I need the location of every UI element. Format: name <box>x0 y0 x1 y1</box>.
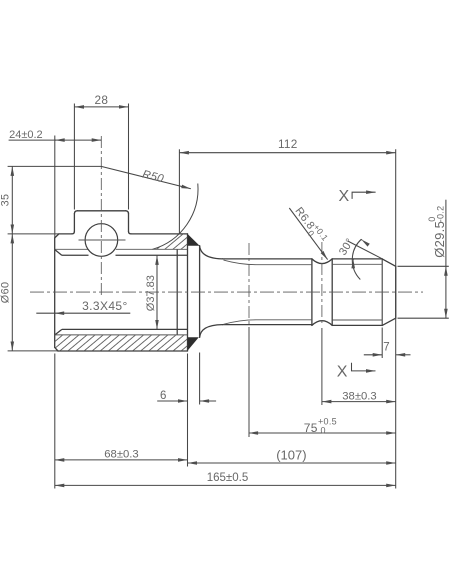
tip end extension line (112/165/7/38/75/107) <box>395 149 397 488</box>
svg-text:-0.2: -0.2 <box>436 206 446 223</box>
thread minor dia top right section <box>332 263 382 265</box>
groove neck arc top R6.8 <box>312 259 332 264</box>
flange bottom-left corner chamfer <box>55 347 58 351</box>
relief groove filled triangle bottom <box>188 337 199 351</box>
bore bottom line (thread minor) <box>62 328 187 330</box>
left face extension below <box>54 354 56 489</box>
dim 24 left extension <box>54 136 56 239</box>
R6.8 leader <box>289 208 327 260</box>
extension line below part x=249 for dim 75 <box>248 327 250 437</box>
dim 7 line with outside arrows <box>364 354 382 356</box>
dim 165 line <box>55 484 396 486</box>
thread runout / minor dia top left section <box>224 260 312 265</box>
bore entrance chamfer 3.3x45 bottom <box>55 329 62 335</box>
thread end line at chamfer start <box>381 259 383 326</box>
fillet ledge to boss left <box>72 231 75 234</box>
svg-text:(107): (107) <box>276 447 306 462</box>
svg-text:Ø37.83: Ø37.83 <box>145 275 157 311</box>
svg-text:165±0.5: 165±0.5 <box>207 472 249 484</box>
dim 24 line <box>9 139 102 141</box>
bore end wall <box>176 249 178 335</box>
boss top edge <box>77 210 125 212</box>
text R6.8 +0.1/0 rotated <box>290 203 330 248</box>
bore entrance chamfer 3.3x45 top <box>55 250 62 256</box>
shaft top line right section <box>332 258 382 260</box>
dim 28 extension lines <box>74 104 128 210</box>
boss top-left corner radius <box>74 211 77 214</box>
dim D37.83 line <box>156 255 158 329</box>
main horizontal centerline <box>30 291 423 293</box>
shoulder fillet bottom <box>200 325 223 338</box>
cross hole circle <box>85 224 118 257</box>
groove neck arc bottom R6.8 <box>312 321 332 326</box>
flange top extension to left <box>8 233 59 235</box>
svg-text:X: X <box>339 188 350 205</box>
text D29.5 0/-0.2 rotated <box>427 206 447 258</box>
dim 112 left extension <box>178 149 180 233</box>
bore top line (thread minor) <box>62 254 187 256</box>
dim 6 extensions <box>188 353 200 467</box>
flange bottom surface <box>58 350 188 352</box>
hatch bottom wall of flange <box>55 335 188 351</box>
svg-text:0: 0 <box>321 426 326 436</box>
30 deg chamfer extension line <box>348 241 383 259</box>
dim 107 line <box>188 462 396 464</box>
groove center line x=321.9 (38 dim) <box>321 242 323 326</box>
dim 6 line with outside arrows <box>157 400 187 402</box>
fillet boss right to ledge <box>129 231 132 234</box>
flange top-left corner chamfer <box>55 234 59 238</box>
datum centerline x=248.6 (75 dim) <box>248 243 250 326</box>
R50 break-out boundary arc <box>153 184 199 250</box>
svg-text:3.3X45°: 3.3X45° <box>82 299 128 313</box>
extension line below part x=321.9 for dim 38 <box>321 328 323 405</box>
cross hole horizontal center mark <box>79 239 126 241</box>
dim 38 line <box>322 401 396 403</box>
30 deg dimension arc <box>352 239 361 279</box>
dim D29.5 extension bottom <box>398 317 449 319</box>
X section marker top leader <box>352 192 376 199</box>
dim 68 line <box>55 459 188 461</box>
dim 35 top reference line <box>8 165 102 167</box>
relief groove filled triangle top <box>188 234 200 246</box>
flange right face <box>187 234 189 351</box>
svg-text:38±0.3: 38±0.3 <box>342 390 376 402</box>
shaft top line left section <box>223 258 312 260</box>
boss right edge <box>128 214 130 232</box>
shaft bottom line left section <box>223 324 312 326</box>
dim 35 line <box>11 166 13 234</box>
dim 3.3X45 arrow <box>54 312 57 314</box>
dim 75 line <box>249 432 396 434</box>
boss top-right corner radius <box>126 211 129 214</box>
dim 3.3X45 line <box>36 312 130 314</box>
groove left wall <box>311 259 313 326</box>
tip end face <box>395 266 397 318</box>
shoulder line at relief groove <box>199 246 201 337</box>
svg-text:68±0.3: 68±0.3 <box>104 448 138 460</box>
flange left face <box>54 238 56 348</box>
svg-text:35: 35 <box>0 194 11 207</box>
dim 28 line <box>75 106 129 108</box>
svg-text:X: X <box>337 364 348 381</box>
boss / hole vertical centerline <box>100 136 102 297</box>
groove right wall <box>331 259 333 326</box>
dim 112 line <box>179 152 395 154</box>
dim 7 extension left <box>381 328 383 359</box>
svg-text:28: 28 <box>95 93 109 107</box>
flange bottom extension to left <box>8 350 58 352</box>
flange top surface right of boss <box>131 233 188 235</box>
dim D60 line <box>11 234 13 351</box>
tip chamfer 30 bottom <box>382 318 396 325</box>
svg-text:Ø60: Ø60 <box>0 282 11 304</box>
internal thread major line top (thin) <box>55 248 188 250</box>
thread runout / minor dia bottom left section <box>224 320 312 325</box>
svg-text:6: 6 <box>160 390 167 402</box>
svg-text:7: 7 <box>383 341 390 353</box>
dim D29.5 extension top <box>398 265 449 267</box>
svg-text:112: 112 <box>278 137 298 151</box>
tip chamfer 30 top <box>382 259 396 266</box>
hatch broken-out section top right <box>153 234 188 249</box>
shaft bottom line right section <box>332 324 382 326</box>
shoulder fillet top <box>200 246 223 259</box>
internal thread major line bottom (thin) <box>55 334 188 336</box>
svg-text:Ø29.5: Ø29.5 <box>432 221 447 258</box>
dim 24 arrows <box>54 139 57 141</box>
R50 leader <box>101 166 191 188</box>
dim D29.5 line <box>445 200 447 267</box>
thread minor dia bottom right section <box>332 319 382 321</box>
X section marker bottom leader <box>352 363 376 371</box>
flange top surface left of boss <box>59 233 72 235</box>
boss left edge <box>73 214 75 232</box>
30 deg arc arrowheads <box>360 238 363 241</box>
svg-text:24±0.2: 24±0.2 <box>9 129 43 141</box>
svg-text:75: 75 <box>304 421 318 435</box>
